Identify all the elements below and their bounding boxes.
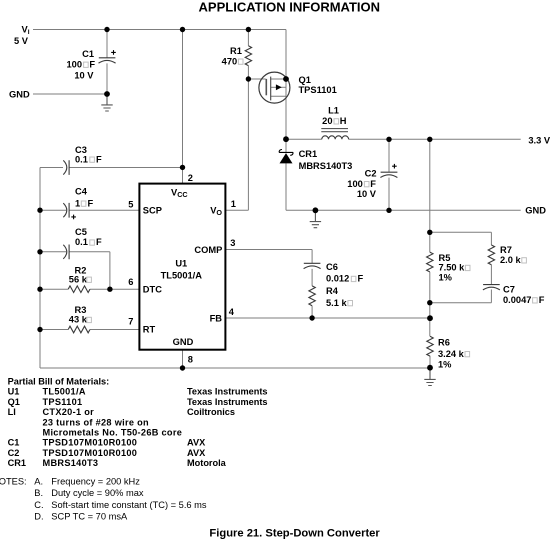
svg-text:GND: GND	[9, 89, 30, 99]
svg-text:A.: A.	[34, 476, 43, 486]
svg-text:0.012: 0.012	[326, 274, 349, 284]
svg-text:0.1: 0.1	[75, 237, 88, 247]
svg-text:SCP TC = 70 msA: SCP TC = 70 msA	[51, 512, 128, 522]
svg-text:FB: FB	[210, 313, 223, 323]
svg-text:AVX: AVX	[187, 448, 206, 458]
svg-text:F: F	[370, 179, 376, 189]
svg-text:TPS1101: TPS1101	[43, 397, 83, 407]
svg-text:5: 5	[128, 199, 133, 209]
svg-text:VI: VI	[22, 25, 30, 37]
svg-text:APPLICATION INFORMATION: APPLICATION INFORMATION	[199, 0, 381, 14]
svg-text:3: 3	[230, 238, 235, 248]
svg-text:VO: VO	[210, 206, 222, 218]
svg-text:0.0047: 0.0047	[503, 295, 531, 305]
svg-text:VCC: VCC	[171, 187, 188, 199]
svg-text:23 turns of #28 wire on: 23 turns of #28 wire on	[43, 417, 150, 427]
svg-text:TPS1101: TPS1101	[299, 85, 337, 95]
svg-text:F: F	[539, 295, 545, 305]
svg-text:AVX: AVX	[187, 438, 206, 448]
svg-text:LI: LI	[8, 407, 16, 417]
svg-text:Q1: Q1	[299, 75, 311, 85]
svg-text:TPSD107M010R0100: TPSD107M010R0100	[43, 438, 138, 448]
svg-text:GND: GND	[525, 206, 546, 216]
svg-text:5.1 k: 5.1 k	[326, 298, 348, 308]
svg-text:C5: C5	[75, 227, 87, 237]
svg-text:F: F	[96, 154, 102, 164]
svg-text:R4: R4	[326, 286, 339, 296]
svg-text:3.24 k: 3.24 k	[438, 349, 465, 359]
svg-text:C7: C7	[503, 285, 515, 295]
svg-text:CR1: CR1	[8, 458, 26, 468]
svg-text:56 k: 56 k	[69, 274, 88, 284]
svg-text:U1: U1	[8, 387, 20, 397]
svg-text:SCP: SCP	[143, 205, 162, 215]
svg-text:1: 1	[75, 198, 80, 208]
svg-text:U1: U1	[175, 259, 187, 269]
svg-text:C2: C2	[365, 168, 377, 178]
svg-text:Coiltronics: Coiltronics	[187, 407, 235, 417]
svg-text:5 V: 5 V	[14, 36, 29, 46]
svg-text:C.: C.	[34, 500, 43, 510]
svg-text:Partial Bill of Materials:: Partial Bill of Materials:	[8, 377, 110, 387]
svg-text:R1: R1	[230, 46, 242, 56]
svg-text:100: 100	[66, 59, 82, 69]
svg-text:NOTES:: NOTES:	[0, 476, 27, 486]
svg-text:GND: GND	[173, 337, 194, 347]
svg-text:20: 20	[322, 116, 332, 126]
svg-text:7: 7	[128, 317, 133, 327]
svg-text:Texas Instruments: Texas Instruments	[187, 387, 268, 397]
svg-text:C6: C6	[326, 262, 338, 272]
svg-text:1%: 1%	[439, 273, 453, 283]
svg-text:470: 470	[222, 56, 238, 66]
svg-text:COMP: COMP	[194, 245, 222, 255]
svg-text:4: 4	[229, 307, 235, 317]
svg-text:CR1: CR1	[299, 149, 318, 159]
svg-text:Micrometals No. T50-26B core: Micrometals No. T50-26B core	[43, 428, 183, 438]
svg-text:R6: R6	[438, 337, 450, 347]
svg-text:TL5001/A: TL5001/A	[43, 387, 86, 397]
svg-text:R5: R5	[439, 253, 451, 263]
svg-text:6: 6	[128, 277, 133, 287]
svg-text:100: 100	[347, 179, 363, 189]
svg-text:TPSD107M010R0100: TPSD107M010R0100	[43, 448, 138, 458]
svg-text:Texas Instruments: Texas Instruments	[187, 397, 268, 407]
svg-text:Duty cycle = 90% max: Duty cycle = 90% max	[51, 488, 144, 498]
svg-text:CTX20-1 or: CTX20-1 or	[43, 407, 95, 417]
svg-text:B.: B.	[34, 488, 43, 498]
svg-text:L1: L1	[328, 105, 339, 115]
svg-text:Soft-start time constant (TC): Soft-start time constant (TC) = 5.6 ms	[51, 500, 207, 510]
svg-text:2.0 k: 2.0 k	[500, 255, 522, 265]
svg-text:10 V: 10 V	[74, 71, 94, 81]
svg-text:10 V: 10 V	[357, 189, 377, 199]
svg-text:Frequency = 200 kHz: Frequency = 200 kHz	[51, 476, 140, 486]
svg-text:F: F	[358, 274, 364, 284]
svg-text:Figure 21. Step-Down Converter: Figure 21. Step-Down Converter	[209, 528, 380, 540]
svg-text:D.: D.	[34, 512, 43, 522]
svg-text:3.3 V: 3.3 V	[528, 135, 550, 145]
svg-text:0.1: 0.1	[75, 154, 88, 164]
svg-text:MBRS140T3: MBRS140T3	[299, 161, 353, 171]
svg-text:1: 1	[231, 199, 236, 209]
svg-text:C3: C3	[75, 145, 87, 155]
svg-text:MBRS140T3: MBRS140T3	[43, 458, 99, 468]
svg-text:TL5001/A: TL5001/A	[161, 270, 203, 280]
svg-text:R7: R7	[500, 245, 512, 255]
svg-text:Q1: Q1	[8, 397, 20, 407]
svg-text:F: F	[96, 237, 102, 247]
svg-text:H: H	[340, 116, 347, 126]
svg-text:F: F	[88, 198, 94, 208]
svg-text:2: 2	[188, 173, 193, 183]
svg-text:RT: RT	[143, 325, 156, 335]
svg-text:8: 8	[188, 354, 193, 364]
svg-text:C2: C2	[8, 448, 20, 458]
svg-text:C4: C4	[75, 186, 88, 196]
svg-text:R3: R3	[75, 305, 87, 315]
svg-text:F: F	[89, 59, 95, 69]
svg-text:C1: C1	[8, 438, 20, 448]
svg-text:7.50 k: 7.50 k	[439, 263, 466, 273]
svg-text:Motorola: Motorola	[187, 458, 227, 468]
svg-text:1%: 1%	[438, 359, 452, 369]
svg-text:43 k: 43 k	[69, 315, 88, 325]
svg-text:DTC: DTC	[143, 284, 162, 294]
svg-text:C1: C1	[82, 49, 94, 59]
